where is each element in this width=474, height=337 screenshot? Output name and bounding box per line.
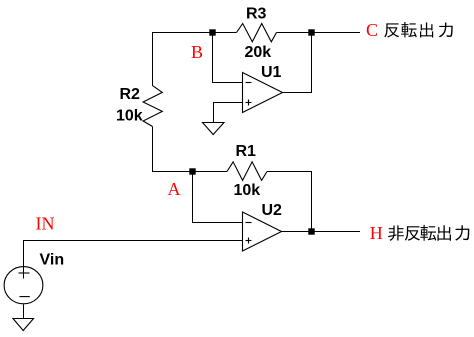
op-amp U2 (243, 212, 282, 251)
svg-text:H: H (370, 223, 383, 243)
svg-text:20k: 20k (245, 44, 272, 61)
op-amp U1 (243, 73, 283, 113)
svg-text:Vin: Vin (40, 252, 65, 269)
junction U2 output / H (308, 228, 314, 234)
wire R1 right down to U2 output node (267, 172, 312, 232)
junction node B (209, 29, 215, 35)
resistor R1 zigzag (227, 162, 267, 181)
wire top-left horizontal B row (153, 33, 237, 86)
svg-text:U1: U1 (261, 64, 282, 81)
junction node A (189, 168, 195, 174)
wire R2 bottom to node A row (153, 127, 228, 172)
svg-text:R2: R2 (120, 86, 141, 103)
svg-text:A: A (168, 179, 181, 199)
wire node A down to U2 inverting input (193, 172, 243, 223)
wire R3 right to output C (277, 32, 361, 34)
U2 inverting input mark - (246, 222, 252, 224)
svg-text:R1: R1 (236, 143, 257, 160)
wire B node down to U1 inverting input (213, 33, 243, 83)
wire Vin bottom to ground (23, 305, 25, 319)
wire U1 output feedback up to R3 (283, 33, 312, 93)
svg-text:R3: R3 (246, 6, 267, 23)
text 非反転出力 (non-inverted output) (388, 225, 469, 241)
wire U2 output to H (282, 231, 361, 233)
svg-text:10k: 10k (116, 108, 143, 125)
wire IN to U2 non-inverting input (24, 241, 243, 279)
resistor R2 zigzag (143, 86, 162, 127)
ground at U1 + input (203, 123, 225, 135)
resistor R3 zigzag (237, 24, 277, 42)
junction R3 right / U1 feedback (308, 29, 314, 35)
text 反転出力 (inverted output) (384, 22, 452, 37)
voltage source Vin (4, 267, 43, 304)
svg-text:10k: 10k (234, 182, 261, 199)
U1 non-inverting input mark + (246, 102, 252, 104)
U1 inverting input mark - (246, 82, 252, 84)
U2 non-inverting input mark + (246, 240, 252, 242)
svg-text:U2: U2 (262, 202, 283, 219)
ground below Vin (13, 319, 34, 331)
Vin plus terminal mark (19, 272, 30, 274)
svg-text:C: C (366, 20, 378, 40)
Vin minus terminal mark (20, 296, 30, 298)
wire U1 non-inverting input to ground (214, 103, 243, 123)
svg-text:IN: IN (36, 214, 55, 234)
svg-text:B: B (191, 42, 203, 62)
